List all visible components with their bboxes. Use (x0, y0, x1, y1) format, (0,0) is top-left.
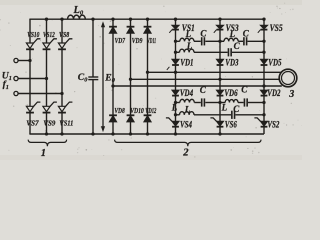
wire (46, 49, 48, 106)
svg-text:VS10: VS10 (27, 30, 39, 39)
svg-text:VD12: VD12 (145, 106, 156, 115)
thyristor VS7 (34, 102, 41, 106)
junction bottom bus (111, 132, 114, 135)
svg-text:VS5: VS5 (270, 23, 283, 33)
wire motor phase B (131, 78, 280, 80)
diode VD12 (144, 114, 152, 116)
svg-text:C: C (200, 85, 207, 95)
brace block 2 (inverter) (115, 140, 261, 147)
svg-text:VS12: VS12 (43, 30, 55, 39)
junction top bus (146, 18, 149, 21)
AC input phase wire 3 (14, 91, 18, 95)
thyristor VS12 (46, 19, 48, 43)
svg-text:VS9: VS9 (43, 118, 55, 127)
svg-text:C: C (233, 104, 240, 114)
wire motor phase A (148, 71, 282, 73)
svg-text:VS6: VS6 (225, 120, 237, 130)
svg-text:L: L (186, 41, 193, 51)
svg-text:L: L (171, 103, 178, 113)
svg-text:VD2: VD2 (267, 88, 281, 98)
svg-text:L: L (184, 104, 191, 114)
thyristor VS8 (61, 19, 63, 43)
wire (219, 41, 221, 52)
svg-text:VS2: VS2 (267, 120, 279, 130)
diode VD1 (175, 52, 177, 59)
commutation branch L C (VS3-VS5) (220, 40, 224, 42)
commutation branch L C (VS1-VS3) (174, 40, 177, 43)
thyristor VS5 (263, 19, 265, 25)
wire (263, 103, 265, 115)
commutation branch L C (VS6-VS2) (220, 102, 225, 104)
junction top bus (111, 18, 114, 21)
svg-text:VD8: VD8 (114, 106, 125, 115)
thyristor VS6 (219, 115, 221, 122)
svg-text:VS7: VS7 (26, 118, 40, 127)
thyristor VS1 (175, 19, 177, 25)
junction top bus / VS12 leg (45, 18, 48, 21)
svg-text:VD6: VD6 (224, 88, 238, 98)
diode VD10 (127, 114, 135, 116)
voltage arrow E0 (102, 24, 104, 130)
wire (175, 41, 177, 52)
svg-text:3: 3 (288, 89, 294, 100)
svg-text:C: C (234, 41, 241, 51)
svg-text:C: C (241, 85, 248, 95)
wire (263, 41, 265, 52)
commutation branch L C (VS4-VS6) (174, 101, 177, 104)
svg-text:VD1: VD1 (180, 58, 193, 68)
svg-text:VS4: VS4 (180, 120, 192, 130)
thyristor VS3 (219, 19, 221, 25)
paper background (0, 0, 302, 160)
diode VD3 (219, 52, 221, 59)
thyristor VS9 (50, 102, 57, 106)
svg-text:L: L (185, 29, 192, 39)
junction bottom bus (174, 132, 177, 135)
diode VD4 (175, 72, 177, 90)
commutation branch L C (VS4-VS2) (174, 113, 177, 116)
diode VD8 (109, 114, 117, 116)
AC input phase wire 1 (14, 58, 18, 62)
diode VD7 (112, 19, 114, 26)
svg-text:L: L (229, 29, 236, 39)
svg-text:VD5: VD5 (268, 58, 282, 68)
thyristor VS2 (263, 115, 265, 122)
diode VD2 (263, 86, 265, 90)
motor 3 (induction machine) (279, 69, 297, 87)
junction top bus (129, 18, 132, 21)
svg-text:2: 2 (182, 148, 189, 159)
junction bottom bus / VS9 leg (45, 132, 48, 135)
svg-text:VD10: VD10 (130, 106, 144, 115)
svg-text:VD9: VD9 (132, 36, 143, 45)
thyristor VS10 (29, 19, 31, 43)
AC input phase wire 2 (14, 76, 18, 80)
svg-text:VS8: VS8 (59, 30, 69, 39)
wire (61, 49, 63, 106)
junction bottom bus (146, 132, 149, 135)
stray mark near VD1 (167, 67, 170, 70)
svg-text:C: C (243, 28, 250, 38)
wire (29, 49, 31, 106)
junction top bus / VS8 leg (60, 18, 63, 21)
capacitor C0 (92, 19, 94, 77)
thyristor VS11 (66, 102, 73, 106)
diode VD9 (130, 19, 132, 26)
svg-text:L: L (221, 103, 228, 113)
junction bottom bus (218, 132, 221, 135)
thyristor VS4 (175, 115, 177, 122)
svg-text:VD4: VD4 (180, 88, 194, 98)
wire (219, 103, 221, 115)
diode VD5 (263, 52, 265, 59)
svg-text:C: C (200, 28, 207, 38)
junction bottom bus (129, 132, 132, 135)
commutation branch L C (VS1-VS5) (174, 51, 177, 54)
svg-text:VD3: VD3 (225, 58, 239, 68)
inductor L0 (68, 15, 86, 19)
brace block 1 (rectifier) (28, 140, 66, 147)
diode VD11 (147, 19, 149, 26)
svg-text:VD7: VD7 (115, 36, 126, 45)
wire top DC bus (29, 18, 264, 20)
wire motor phase C (113, 85, 282, 87)
diode VD6 (219, 79, 221, 90)
wire (175, 103, 177, 115)
svg-text:1: 1 (41, 148, 46, 159)
svg-text:VD11: VD11 (147, 36, 156, 45)
wire bottom DC bus (29, 133, 264, 135)
junction bottom bus / VS11 leg (60, 132, 63, 135)
